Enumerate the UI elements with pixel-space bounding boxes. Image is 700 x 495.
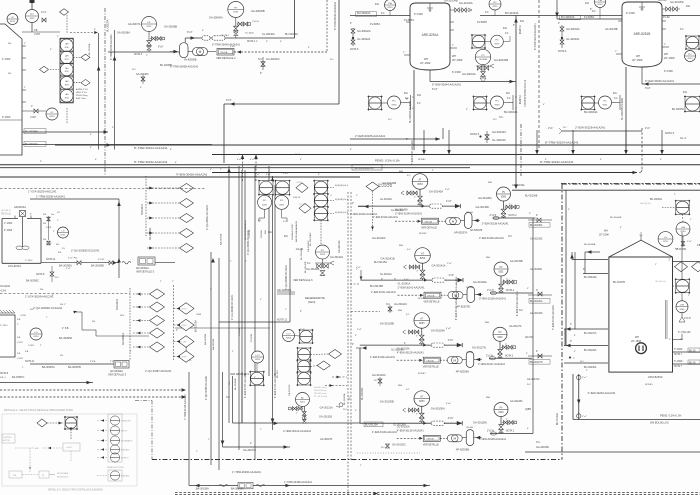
svg-text:F.B.: F.B.	[675, 249, 679, 251]
svg-text:1"-150#: 1"-150#	[4, 223, 13, 225]
svg-text:INFLAMABLE: INFLAMABLE	[121, 440, 133, 443]
svg-text:8253: 8253	[419, 322, 425, 325]
wire pipe GA-30139K	[493, 216, 499, 219]
valve	[409, 330, 413, 334]
valve	[303, 420, 307, 424]
valve	[410, 265, 414, 269]
svg-text:INA: INA	[399, 244, 403, 247]
svg-text:6": 6"	[50, 49, 52, 51]
svg-text:WH: WH	[424, 58, 428, 61]
svg-text:8201: 8201	[300, 402, 306, 404]
svg-text:BU-30429A: BU-30429A	[308, 360, 311, 372]
instrument square	[685, 35, 700, 50]
svg-text:F.B.: F.B.	[58, 252, 62, 254]
svg-text:NOTA 11: NOTA 11	[25, 360, 35, 363]
svg-text:4"x2": 4"x2"	[250, 159, 255, 161]
wire riser FV-8258	[515, 16, 517, 189]
svg-text:1"-TRW-30266-AA1A241: 1"-TRW-30266-AA1A241	[232, 470, 261, 474]
svg-text:BU-30145A: BU-30145A	[374, 261, 387, 264]
wire dots row	[357, 452, 420, 454]
svg-text:BU-30433A: BU-30433A	[343, 393, 346, 405]
svg-text:NOTA 2: NOTA 2	[418, 158, 426, 161]
diamond	[299, 204, 311, 214]
svg-text:CELDA: CELDA	[426, 438, 434, 441]
svg-text:1"-UTA-30200-AH1C241: 1"-UTA-30200-AH1C241	[28, 190, 57, 194]
svg-text:VER DETALLE: VER DETALLE	[423, 444, 439, 447]
svg-text:2"x1": 2"x1"	[41, 11, 47, 14]
svg-text:4"-IEW-30131-AA1A241: 4"-IEW-30131-AA1A241	[455, 276, 458, 300]
svg-text:VER DETALLE 5: VER DETALLE 5	[108, 374, 127, 377]
svg-text:8232: 8232	[30, 18, 36, 20]
svg-text:8": 8"	[40, 161, 42, 163]
wire corner 585	[584, 252, 586, 274]
svg-text:6": 6"	[543, 104, 545, 106]
svg-text:30144A FV-8267: 30144A FV-8267	[291, 223, 294, 240]
svg-text:8234: 8234	[65, 97, 69, 99]
svg-text:FR-BO Dmg: FR-BO Dmg	[76, 95, 88, 97]
svg-text:2"-QU-30387-OC1K241: 2"-QU-30387-OC1K241	[145, 370, 172, 373]
svg-text:F.B.: F.B.	[43, 223, 47, 225]
svg-text:BA-30289B: BA-30289B	[204, 333, 207, 345]
svg-text:1": 1"	[296, 412, 298, 414]
strainer	[202, 36, 210, 40]
svg-text:BU-30138A: BU-30138A	[530, 224, 543, 227]
valve GA-30130C	[386, 444, 390, 448]
svg-text:BA-30387B: BA-30387B	[68, 366, 81, 369]
svg-text:2"x1": 2"x1"	[66, 268, 71, 270]
cell AP-82536B	[423, 435, 440, 441]
diamond	[81, 79, 90, 86]
pot AP-82536B	[466, 430, 474, 446]
wire vertical dashdot BU-30037A	[104, 8, 106, 176]
svg-text:INA: INA	[399, 170, 403, 173]
valve	[498, 349, 503, 354]
svg-text:BU-30145B: BU-30145B	[370, 285, 383, 288]
svg-text:8": 8"	[350, 149, 352, 151]
svg-text:6": 6"	[30, 214, 32, 216]
svg-text:FV-8285: FV-8285	[249, 229, 251, 238]
flex hose 2	[116, 363, 125, 366]
svg-text:3"-IEW-30137-AA1A241: 3"-IEW-30137-AA1A241	[411, 140, 414, 165]
valve	[499, 284, 504, 289]
svg-text:2": 2"	[669, 339, 671, 341]
svg-text:4"x3": 4"x3"	[448, 417, 454, 420]
svg-text:AP-82537B: AP-82537B	[470, 229, 483, 232]
svg-text:GA-30131C: GA-30131C	[527, 378, 540, 381]
pump AP-82537B	[448, 292, 463, 299]
svg-text:2": 2"	[417, 271, 419, 273]
svg-text:CELDA: CELDA	[466, 211, 473, 214]
svg-text:F.C.: F.C.	[485, 12, 489, 14]
svg-text:8": 8"	[170, 149, 172, 151]
svg-text:1": 1"	[360, 465, 362, 467]
svg-text:4"-IEW-30130-AA1A241: 4"-IEW-30130-AA1A241	[397, 430, 425, 433]
svg-text:GA-30139A: GA-30139A	[512, 184, 525, 187]
instrument square	[684, 95, 700, 112]
svg-text:8253: 8253	[388, 7, 394, 9]
svg-text:6": 6"	[95, 159, 97, 161]
instrument bubble	[676, 301, 688, 313]
svg-text:2": 2"	[210, 289, 212, 291]
svg-text:3": 3"	[570, 324, 572, 326]
valve V-007	[34, 109, 38, 113]
svg-text:1": 1"	[260, 429, 262, 431]
svg-text:LG: LG	[62, 230, 65, 232]
svg-text:2"x#": 2"x#"	[582, 377, 587, 379]
svg-text:20"-150#: 20"-150#	[664, 56, 675, 60]
svg-text:(2)BB: (2)BB	[525, 409, 531, 411]
wire dashdot boundary vertical	[561, 184, 563, 460]
svg-text:BU-30043A: BU-30043A	[561, 15, 575, 19]
svg-text:6": 6"	[280, 41, 282, 43]
wire vertical x114.5	[114, 30, 116, 150]
svg-text:F.C.: F.C.	[407, 175, 411, 177]
svg-text:A-MW-,2"-Ul.: A-MW-,2"-Ul.	[76, 88, 89, 91]
svg-text:4"x3": 4"x3"	[448, 339, 454, 342]
svg-text:4(LS)-8(L)G-.4: 4(LS)-8(L)G-.4	[335, 185, 349, 187]
svg-text:NOTA 8: NOTA 8	[0, 372, 9, 375]
svg-text:FIC: FIC	[603, 100, 607, 102]
svg-text:F.C.: F.C.	[417, 103, 421, 105]
svg-text:6"x5": 6"x5"	[230, 46, 235, 48]
svg-text:SIN BOLSILLOS: SIN BOLSILLOS	[354, 166, 374, 170]
svg-text:INA: INA	[375, 3, 379, 6]
svg-text:F.B.: F.B.	[17, 337, 21, 339]
svg-text:2": 2"	[356, 269, 358, 271]
svg-text:6": 6"	[260, 72, 262, 75]
svg-text:VER DETALLE 6: VER DETALLE 6	[293, 278, 313, 282]
check valve	[455, 204, 461, 208]
svg-text:8232: 8232	[147, 26, 153, 28]
svg-text:3": 3"	[256, 41, 258, 43]
strainer	[430, 204, 443, 208]
svg-text:BA-30390C: BA-30390C	[26, 280, 39, 283]
diamond	[317, 361, 330, 370]
svg-text:6": 6"	[94, 29, 96, 31]
svg-text:2": 2"	[452, 45, 454, 47]
wire header y172.5	[212, 172, 637, 174]
instrument bubble	[491, 96, 504, 109]
svg-text:GA-301A2B: GA-301A2B	[306, 268, 320, 271]
svg-text:2"-IEW-30141-AA1A241: 2"-IEW-30141-AA1A241	[398, 287, 426, 290]
svg-text:AP-82536B: AP-82536B	[456, 448, 470, 452]
svg-text:GL-30042A: GL-30042A	[357, 37, 371, 41]
svg-text:2": 2"	[356, 195, 358, 197]
valve GA-30040C	[261, 62, 265, 66]
diamond D2	[150, 328, 165, 338]
svg-text:BA-30200A: BA-30200A	[149, 227, 152, 240]
svg-text:4"-IEW-30127-AA1A241: 4"-IEW-30127-AA1A241	[478, 363, 506, 366]
svg-text:BA-30195A: BA-30195A	[196, 488, 209, 491]
wire main header 8in-TRW-30104	[55, 144, 700, 146]
diamond	[40, 66, 49, 73]
svg-text:(0127D: (0127D	[525, 337, 533, 339]
valve	[407, 191, 411, 195]
svg-text:GA-30038A: GA-30038A	[117, 31, 130, 34]
svg-text:4"-IEW-30131-AA1A241: 4"-IEW-30131-AA1A241	[283, 429, 312, 433]
svg-text:4"-IEW-30150-AA1A241: 4"-IEW-30150-AA1A241	[244, 373, 247, 398]
valve GA-30141C	[388, 307, 392, 311]
diamond D1	[180, 199, 194, 208]
svg-text:AP-82537B: AP-82537B	[457, 305, 471, 309]
instrument bubble	[228, 2, 244, 18]
valve V-201	[47, 217, 51, 221]
wire dashed UTA-30199	[0, 293, 130, 295]
svg-text:FIC: FIC	[263, 200, 267, 202]
svg-text:6"-TRW-30143-AA1A241: 6"-TRW-30143-AA1A241	[534, 23, 537, 50]
svg-text:1": 1"	[250, 443, 252, 445]
tray circle 1	[60, 39, 73, 52]
valve cluster GA-30134A top	[450, 9, 470, 11]
svg-text:3": 3"	[394, 279, 396, 281]
valve GA-30131B cluster	[303, 407, 305, 424]
svg-text:6"-IEW-30045-AA1A241: 6"-IEW-30045-AA1A241	[645, 79, 674, 83]
svg-text:Wm-BK Qm/g: Wm-BK Qm/g	[314, 387, 326, 389]
svg-text:6": 6"	[660, 159, 662, 161]
wire vertical x521 dashdot	[520, 124, 522, 176]
svg-text:2"-IEW-30235-AA1A241: 2"-IEW-30235-AA1A241	[355, 134, 386, 138]
svg-text:NOTA 2: NOTA 2	[509, 214, 518, 217]
svg-text:GA-30135A: GA-30135A	[670, 0, 684, 4]
wire vertical x232	[232, 376, 234, 423]
valve	[234, 26, 239, 31]
svg-text:BU-300A6A: BU-300A6A	[584, 276, 597, 279]
svg-text:GA-30129B: GA-30129B	[380, 322, 394, 326]
svg-text:GA-30131B: GA-30131B	[319, 416, 332, 419]
svg-text:UH+8(L)G+: UH+8(L)G+	[655, 281, 667, 283]
instrument LG roof	[664, 242, 666, 247]
svg-text:APAGADO: APAGADO	[121, 475, 130, 478]
M box	[39, 471, 49, 478]
wire dashed UTA-30200	[0, 188, 205, 190]
svg-text:INA: INA	[486, 396, 490, 399]
wire pipe AP-82537B	[361, 279, 463, 281]
svg-text:BU-30126A: BU-30126A	[584, 349, 597, 352]
wire 6-IEW-30044	[430, 81, 516, 83]
instrument square	[296, 359, 311, 374]
pump AP-82537A	[446, 218, 461, 225]
svg-text:4"x3": 4"x3"	[449, 274, 455, 277]
svg-text:NOTA 2: NOTA 2	[134, 53, 143, 56]
wire vertical x533	[532, 218, 534, 434]
svg-text:DETALLE: DETALLE	[1, 213, 12, 216]
svg-text:2"-QU-30393D-OC1A241: 2"-QU-30393D-OC1A241	[71, 250, 100, 253]
svg-text:8233: 8233	[65, 84, 69, 86]
svg-text:WH: WH	[452, 55, 456, 58]
svg-text:PV: PV	[499, 407, 503, 409]
diamond D3	[178, 336, 194, 348]
svg-text:5": 5"	[412, 108, 414, 110]
svg-text:F.B.: F.B.	[43, 214, 47, 216]
svg-text:BU-30143-AA1A241: BU-30143-AA1A241	[244, 219, 247, 240]
wire elbow mid B	[281, 209, 283, 218]
svg-text:N.C: N.C	[386, 304, 390, 306]
pump AP-82536A	[447, 357, 462, 364]
svg-text:INA: INA	[506, 92, 510, 95]
svg-text:GA-30142A: GA-30142A	[338, 240, 341, 253]
wire vertical header x272.5	[272, 176, 274, 430]
svg-text:1": 1"	[17, 324, 19, 326]
instrument bubble	[258, 195, 272, 209]
svg-text:BU-30142A: BU-30142A	[300, 248, 303, 260]
wire y423	[233, 422, 361, 424]
svg-text:INA: INA	[488, 181, 492, 184]
svg-text:1": 1"	[690, 219, 692, 221]
svg-text:SEÑAL ELECTRICA: SEÑAL ELECTRICA	[107, 466, 124, 469]
svg-text:3"-(?)W-100: 3"-(?)W-100	[678, 332, 691, 334]
svg-text:F.C.: F.C.	[406, 389, 410, 391]
check valve	[457, 343, 463, 347]
svg-text:GA-30130B: GA-30130B	[380, 400, 394, 404]
svg-text:N.C.: N.C.	[499, 117, 504, 119]
svg-text:.4: .4	[330, 195, 332, 197]
instrument square	[472, 95, 487, 110]
svg-text:N.C.: N.C.	[132, 69, 137, 71]
valve N.C BA-30390C	[51, 266, 53, 282]
svg-text:8": 8"	[90, 147, 92, 149]
wire drop arrow	[571, 150, 575, 155]
svg-text:6": 6"	[600, 159, 602, 161]
instrument bubble	[491, 35, 504, 48]
valve	[419, 413, 424, 418]
svg-text:8"-TRW-30104-AA1A241: 8"-TRW-30104-AA1A241	[545, 141, 579, 145]
svg-text:NOTA 6: NOTA 6	[350, 48, 359, 51]
svg-text:2"-150#: 2"-150#	[0, 325, 8, 327]
svg-text:4(LS)-8(L)G-.4: 4(LS)-8(L)G-.4	[335, 212, 349, 214]
svg-text:BU-30038B: BU-30038B	[160, 65, 172, 67]
valve BA-30390A	[77, 261, 81, 265]
svg-text:NOTA 2: NOTA 2	[247, 40, 256, 43]
svg-text:SIN BOLSILLOS: SIN BOLSILLOS	[650, 422, 669, 425]
valve GA-30042A	[351, 29, 355, 33]
svg-text:OPEN: OPEN	[181, 356, 187, 358]
letdown valve group GA-30127N	[472, 327, 532, 366]
svg-text:2"-150#: 2"-150#	[4, 230, 13, 232]
strainer	[431, 421, 444, 425]
svg-text:1"-TRW-30198-AA1A241: 1"-TRW-30198-AA1A241	[284, 481, 313, 484]
svg-text:1"x2": 1"x2"	[300, 329, 305, 331]
svg-text:F.B.-1: F.B.-1	[0, 377, 6, 379]
wire drop arrow	[422, 150, 426, 155]
valve	[293, 407, 297, 411]
wire vertical header x239	[238, 166, 240, 450]
svg-text:BA-30318A: BA-30318A	[195, 320, 198, 332]
svg-text:6": 6"	[513, 25, 515, 27]
vessel A inlet line	[350, 15, 410, 17]
svg-text:1": 1"	[57, 220, 59, 222]
svg-text:F.C.: F.C.	[592, 11, 596, 13]
svg-text:BA-30387A: BA-30387A	[42, 366, 55, 369]
diamond	[60, 9, 69, 16]
svg-text:1"-TRW-30196-AA1A241: 1"-TRW-30196-AA1A241	[36, 195, 65, 199]
svg-text:2": 2"	[52, 295, 54, 297]
svg-text:8263: 8263	[681, 231, 687, 233]
separator pot AP-82505B	[180, 43, 189, 58]
svg-text:BU-304: BU-304	[277, 370, 279, 378]
valve	[415, 330, 419, 334]
wire dashed elbow top	[70, 32, 96, 34]
svg-text:BA-30390B: BA-30390B	[91, 264, 104, 267]
valve cluster GA-30135A	[662, 8, 680, 10]
label SIN BOLSILLOS	[352, 165, 382, 171]
svg-text:8": 8"	[574, 335, 576, 337]
wire y452 right	[525, 451, 700, 453]
diamond D1	[180, 184, 194, 193]
svg-text:1": 1"	[31, 106, 33, 108]
valve	[298, 407, 302, 411]
svg-text:1": 1"	[22, 367, 24, 369]
svg-text:NOTA 6: NOTA 6	[470, 132, 480, 136]
diamond D1	[180, 244, 194, 253]
svg-text:20"-150#: 20"-150#	[631, 340, 642, 343]
svg-text:3" F.B.: 3" F.B.	[98, 259, 105, 261]
svg-text:APAGADO: APAGADO	[121, 449, 130, 452]
svg-text:BU-30046A: BU-30046A	[584, 243, 596, 246]
svg-text:BU-30038A: BU-30038A	[25, 131, 38, 134]
diamond D2	[150, 289, 165, 299]
svg-text:A-M":,05m: A-M":,05m	[76, 97, 86, 100]
svg-text:2"x1": 2"x1"	[687, 241, 692, 243]
svg-text:N.C: N.C	[519, 310, 523, 312]
svg-text:AD-322-BD: AD-322-BD	[277, 288, 291, 292]
wire pend line	[573, 419, 700, 421]
svg-text:M: M	[199, 50, 202, 54]
tray column filter	[60, 38, 73, 103]
svg-text:SDV-8215: SDV-8215	[141, 203, 144, 215]
svg-text:BU-30134A: BU-30134A	[505, 11, 519, 15]
svg-text:2": 2"	[536, 215, 538, 217]
svg-text:BU-30126A: BU-30126A	[530, 300, 543, 303]
svg-text:2": 2"	[414, 197, 416, 199]
pump train AP-82537A	[358, 174, 480, 235]
svg-text:BU-30044A: BU-30044A	[584, 110, 598, 114]
svg-text:NOTA 6: NOTA 6	[558, 50, 567, 53]
svg-text:F.B.: F.B.	[25, 351, 29, 353]
instrument bubble	[26, 10, 39, 23]
svg-text:4": 4"	[355, 410, 357, 412]
svg-text:FIC: FIC	[495, 100, 499, 102]
wire tank drain	[578, 374, 580, 420]
wire inlet B	[557, 18, 622, 20]
svg-text:8235: 8235	[233, 12, 239, 14]
wire dashdot to detail	[135, 400, 152, 402]
svg-text:INA: INA	[683, 91, 687, 94]
valve	[504, 421, 508, 425]
svg-text:LCV: LCV	[286, 333, 291, 335]
wires small mid-left	[175, 327, 270, 329]
svg-text:2": 2"	[352, 203, 354, 205]
svg-text:VER DETALLE: VER DETALLE	[423, 366, 439, 369]
valve branch GA-30040	[237, 23, 248, 25]
svg-text:2": 2"	[130, 351, 132, 353]
svg-text:M: M	[452, 220, 455, 224]
svg-text:GA-30140A: GA-30140A	[429, 190, 443, 194]
valve	[420, 270, 425, 275]
pump AP-82536B	[447, 435, 462, 442]
wire dashed to right	[234, 51, 327, 53]
valve	[504, 280, 508, 284]
svg-text:CELDA: CELDA	[425, 221, 433, 224]
svg-text:F.C.: F.C.	[614, 98, 618, 100]
svg-text:N.C.: N.C.	[388, 119, 393, 121]
svg-text:6": 6"	[466, 109, 468, 111]
tray circle 2	[60, 51, 73, 64]
svg-text:1": 1"	[506, 419, 508, 421]
check valve	[458, 278, 464, 282]
svg-text:F.C.: F.C.	[407, 249, 411, 251]
svg-text:FIC: FIC	[280, 200, 284, 202]
svg-text:8263: 8263	[498, 412, 504, 414]
